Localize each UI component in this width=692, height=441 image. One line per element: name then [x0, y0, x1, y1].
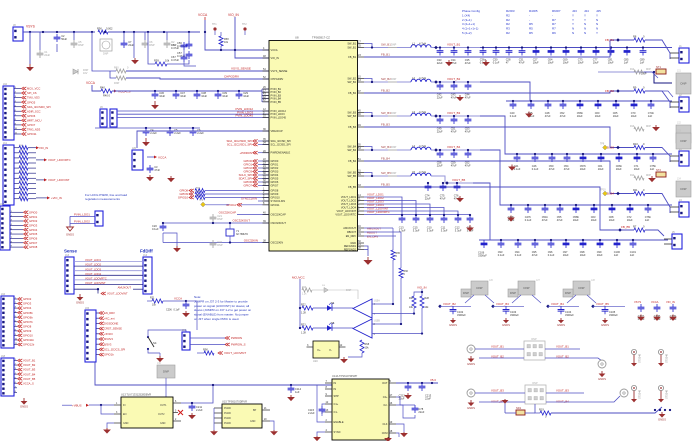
- net label VOUT_B3 jB L: [491, 388, 504, 392]
- wire C7 gnd drop: [133, 32, 135, 58]
- svg-text:10uF: 10uF: [609, 218, 615, 222]
- wire J15 B/3V3: [96, 343, 99, 345]
- svg-text:DNP: DNP: [163, 370, 169, 374]
- wire J15 +5V3/3: [96, 333, 99, 335]
- junction SW_B2: [371, 81, 373, 83]
- junction SW_B1: [371, 46, 373, 48]
- ground C212: [404, 393, 412, 399]
- svg-text:47uF: 47uF: [451, 96, 457, 100]
- wire pin VOUT_B1: [14, 360, 17, 362]
- connector J15gp: [1, 293, 14, 348]
- no-connect X OUT2: [178, 410, 183, 415]
- net label VOUT_B5: [18, 377, 36, 381]
- net label GPIO10: [18, 334, 34, 338]
- capacitor C105: [602, 306, 619, 317]
- wire SW_B2: [364, 81, 388, 83]
- svg-text:DNP: DNP: [391, 172, 397, 175]
- junction dots LDO caps: [145, 127, 194, 129]
- net label SDA_I2C2/SD0_SPI: [227, 139, 258, 143]
- junction dots gnd right: [654, 409, 671, 411]
- net label sense VOUT_LDO2: [85, 263, 101, 267]
- power label VSYS dec: [634, 300, 641, 304]
- svg-text:J25: J25: [596, 9, 601, 13]
- wire VOUT_B3 out: [431, 115, 480, 117]
- wire SDAT_SPI: [258, 178, 269, 180]
- svg-text:V+: V+: [317, 348, 321, 352]
- net label FB_B2 pin: [381, 88, 390, 92]
- svg-text:DNP: DNP: [681, 139, 687, 143]
- power label VCCA pwron: [174, 296, 182, 300]
- svg-text:VCCA: VCCA: [86, 81, 96, 85]
- svg-text:DNP: DNP: [463, 291, 469, 295]
- svg-text:Y: Y: [596, 31, 598, 35]
- svg-text:47uF: 47uF: [465, 130, 471, 134]
- wire J2 stubs: [670, 102, 679, 107]
- svg-text:0.1uF: 0.1uF: [493, 61, 500, 65]
- wire to J22: [662, 91, 673, 97]
- ground C105: [601, 318, 609, 327]
- capacitor C212: [399, 383, 412, 400]
- svg-text:FB_B5: FB_B5: [381, 182, 390, 186]
- net label VOUT_B2 jA L: [491, 354, 504, 358]
- svg-text:J23: J23: [572, 9, 577, 13]
- svg-text:U10B: U10B: [374, 321, 380, 323]
- svg-text:0.47uF: 0.47uF: [171, 46, 179, 50]
- svg-text:R2: R2: [506, 22, 510, 26]
- svg-text:J17: J17: [182, 329, 187, 332]
- wire CHPGDRV: [126, 78, 269, 79]
- svg-text:SCL_I2C2/SD1_SPI: SCL_I2C2/SD1_SPI: [227, 143, 252, 147]
- svg-text:U8: U8: [295, 36, 299, 40]
- svg-text:GPIO7b: GPIO7b: [23, 320, 33, 324]
- capacitor C35: [465, 48, 472, 66]
- net label VOUT_LDOVINT pwron: [218, 351, 246, 355]
- svg-text:VBACKUP: VBACKUP: [271, 129, 283, 133]
- junction NT1: [653, 71, 655, 73]
- net label FB_B5 pin: [381, 182, 390, 186]
- svg-text:U13 TLV713312528DBVR: U13 TLV713312528DBVR: [121, 393, 151, 397]
- svg-text:3300uF: 3300uF: [478, 254, 487, 258]
- wire J11 pin 5: [14, 172, 19, 174]
- connector J23 DNP: [676, 133, 691, 149]
- wire PVIN bus vertical: [261, 89, 263, 102]
- capacitor C77: [593, 48, 600, 65]
- svg-text:J11: J11: [3, 142, 7, 145]
- wire pin GPIO7b: [14, 321, 17, 323]
- capacitor C43b: [508, 205, 515, 222]
- svg-text:1uF: 1uF: [645, 218, 650, 222]
- resistor R23: [301, 324, 313, 335]
- transistor Q1 DNP: [100, 39, 112, 56]
- svg-text:J27: J27: [536, 279, 541, 282]
- wire U13 OUT1: [181, 385, 213, 403]
- net label J15 DIGSDONE: [99, 322, 119, 326]
- svg-text:R5: R5: [529, 22, 533, 26]
- capacitor C36a: [480, 48, 487, 65]
- junction dots VOUT_B2 caps: [439, 81, 469, 83]
- svg-text:VSYS: VSYS: [634, 300, 641, 304]
- wire SDA_I2C2/SD0_SPI: [258, 140, 269, 142]
- wire sense B1: [598, 71, 654, 73]
- svg-text:DNP: DNP: [477, 286, 483, 290]
- svg-text:VOUT_B2: VOUT_B2: [443, 302, 456, 306]
- net label VSYS: [26, 25, 36, 29]
- wire J11 out 10: [28, 198, 36, 200]
- svg-text:1uF: 1uF: [624, 61, 629, 65]
- svg-text:22uF: 22uF: [128, 43, 134, 47]
- resistor R31 J11: [19, 150, 28, 155]
- svg-text:J10: J10: [3, 83, 8, 86]
- wire RBOOT: [364, 231, 401, 233]
- svg-text:TP9: TP9: [600, 144, 605, 146]
- wire GPIO11: [241, 204, 269, 206]
- svg-text:10uF: 10uF: [634, 167, 640, 171]
- wire PVIN pin stub: [262, 88, 269, 90]
- wire sense VOUT_LDO2: [74, 265, 143, 267]
- net label GPIO8: [24, 245, 38, 249]
- wire pin GPIO3: [10, 224, 23, 226]
- net label SW_B4: [381, 145, 391, 149]
- resistor sense DNP B2: [388, 78, 397, 82]
- net label GPIO5b: [18, 311, 34, 315]
- svg-text:10uF: 10uF: [631, 114, 637, 118]
- svg-text:J23: J23: [677, 130, 682, 133]
- ground J19 GNDS: [66, 227, 74, 236]
- capacitor C6 DNP: [142, 40, 155, 48]
- net label GPIO7: [24, 241, 38, 245]
- svg-text:R6: R6: [552, 31, 556, 35]
- svg-text:TP6: TP6: [199, 200, 204, 202]
- svg-text:+5V3/3: +5V3/3: [104, 332, 113, 336]
- wire U14A OUT: [396, 382, 438, 384]
- net label J15 +KC_ent: [99, 316, 115, 320]
- svg-text:GPIO1: GPIO1: [29, 215, 38, 219]
- wire VOUT_B4 bank rail: [501, 204, 672, 206]
- net label SW_B2: [381, 77, 391, 81]
- svg-text:U10: U10: [313, 360, 318, 363]
- ground U14A: [384, 437, 392, 441]
- net label OSC32KIN: [244, 238, 258, 242]
- wire U10A in-: [372, 313, 414, 315]
- svg-text:0.1uF: 0.1uF: [548, 253, 555, 257]
- nettie NT1: [656, 65, 666, 74]
- net label GPIO4: [18, 306, 32, 310]
- svg-text:+KC_ent: +KC_ent: [104, 316, 115, 320]
- capacitor C74: [425, 183, 432, 201]
- net label PVIN_LDO45: [235, 114, 253, 118]
- ground PVIN caps: [151, 101, 159, 109]
- resistor R32 J11: [19, 155, 28, 160]
- wire SW_B2 merge: [364, 79, 372, 83]
- svg-text:GPIO11: GPIO11: [27, 132, 37, 136]
- svg-text:Y: Y: [584, 18, 586, 22]
- svg-text:10uF: 10uF: [591, 218, 597, 222]
- capacitor C109: [670, 304, 677, 321]
- wire REFGND: [364, 246, 368, 256]
- svg-text:10uF: 10uF: [597, 253, 603, 257]
- wire GPIO3: [258, 171, 269, 173]
- svg-text:3.3uF: 3.3uF: [455, 229, 462, 233]
- capacitor C213: [419, 383, 432, 400]
- resistor R10: [633, 142, 645, 150]
- wire OSC32KOUT: [163, 222, 269, 224]
- wire pin TMU_VD3: [14, 97, 21, 99]
- svg-text:3.3uF: 3.3uF: [413, 229, 420, 233]
- capacitor C99: [597, 240, 604, 257]
- wire FB_B3 to connector: [645, 148, 670, 163]
- wire VOUT_B2 bulk: [440, 305, 471, 307]
- capacitor C29: [236, 91, 250, 99]
- wire PVIN_LDO3: [117, 113, 269, 115]
- net label sense VOUT_LDO4: [85, 272, 101, 276]
- wire FB_B5: [364, 187, 634, 230]
- wire VOUT_LDO4: [364, 208, 444, 216]
- svg-text:1uF: 1uF: [630, 253, 635, 257]
- capacitor C64: [548, 48, 555, 65]
- wire GPIO9: [205, 193, 269, 195]
- wire pin 7: [14, 391, 17, 393]
- net label GPIO10: [178, 196, 194, 200]
- wire jB row2 R: [546, 396, 620, 402]
- svg-text:FB_B3: FB_B3: [348, 125, 356, 129]
- ground GND1: [26, 64, 34, 71]
- ground C114: [287, 395, 295, 401]
- wire J15 MV3V3: [96, 338, 99, 340]
- svg-text:C206: C206: [166, 309, 172, 312]
- svg-text:SW_B1: SW_B1: [347, 42, 356, 46]
- resistor R90: [203, 347, 214, 355]
- wire PVIN_LDO45: [117, 116, 269, 118]
- wire OSC32KCAP: [237, 214, 269, 216]
- svg-text:R14: R14: [630, 175, 635, 177]
- wire SW_B5: [364, 175, 388, 177]
- wire pin SPI_CS: [14, 92, 21, 94]
- svg-text:DNP: DNP: [681, 187, 687, 191]
- svg-text:GPIO3: GPIO3: [271, 170, 279, 174]
- svg-text:OUT: OUT: [382, 381, 388, 385]
- svg-text:VCCA: VCCA: [271, 48, 278, 52]
- ground CLK: [400, 432, 408, 437]
- svg-text:R11: R11: [633, 188, 638, 192]
- wire C1+ cap: [322, 404, 325, 406]
- wire J11 out 3: [28, 162, 36, 164]
- wire VOUT_B5 bank rail: [479, 239, 668, 241]
- net label GPIO12b: [18, 343, 35, 347]
- net label GPIO9: [179, 192, 193, 196]
- IC U8 body TPS65917: [269, 36, 358, 252]
- wire SYNCCLKIN: [258, 200, 269, 202]
- svg-text:VOUT_B3: VOUT_B3: [556, 388, 569, 392]
- connector J12: [0, 203, 10, 250]
- svg-text:VOUT_B3: VOUT_B3: [491, 388, 504, 392]
- wire C67 out: [184, 62, 196, 66]
- wire VOUT_B4 bulk: [548, 305, 579, 307]
- svg-text:V5.0: V5.0: [430, 378, 436, 382]
- svg-text:DNP: DNP: [78, 43, 84, 47]
- capacitor C57: [177, 51, 192, 59]
- svg-text:SW_B4: SW_B4: [347, 148, 356, 152]
- junction dots bank B2: [512, 100, 652, 102]
- net label SCLK_SPI: [239, 173, 258, 177]
- wire jB to R19: [535, 404, 540, 413]
- wire DNP led row 2: [329, 290, 358, 299]
- svg-text:SW_B5: SW_B5: [381, 171, 391, 175]
- svg-text:VOUT_LDO4: VOUT_LDO4: [85, 272, 101, 276]
- ground B1 b: [482, 60, 490, 66]
- net label GPIO6: [22, 114, 36, 118]
- svg-text:22uF: 22uF: [418, 410, 424, 414]
- net label SDAT_SPI: [239, 177, 258, 181]
- capacitor C7: [121, 40, 135, 48]
- svg-text:J18: J18: [1, 355, 6, 358]
- svg-text:47uF: 47uF: [542, 218, 548, 222]
- svg-text:CHPGDRV: CHPGDRV: [224, 75, 239, 79]
- capacitor C27: [533, 48, 540, 65]
- wire J11 pin 0: [14, 147, 19, 149]
- capacitor C11: [441, 215, 448, 233]
- junction dots VOUT_B5 caps: [427, 182, 458, 184]
- svg-text:GPIO6: GPIO6: [27, 114, 36, 118]
- ground REFGND: [363, 257, 372, 265]
- svg-text:2.2uF: 2.2uF: [308, 411, 315, 415]
- net label VOUT_B2: [434, 77, 460, 84]
- junction C211: [191, 402, 193, 404]
- svg-text:Note:: Note:: [194, 295, 201, 299]
- wire U13 gnd: [107, 423, 114, 428]
- capacitor C45: [528, 101, 535, 118]
- capacitor C78: [412, 405, 425, 414]
- svg-text:J16: J16: [1, 293, 6, 296]
- net label AMUXOUT: [367, 226, 381, 230]
- ground B2 near: [456, 95, 464, 101]
- svg-text:VSYS_SENSE: VSYS_SENSE: [231, 67, 251, 71]
- transistor J28 DNP: [573, 281, 590, 295]
- wire FB_B4: [364, 161, 634, 194]
- svg-text:PWRDNENABLE: PWRDNENABLE: [271, 151, 291, 155]
- svg-text:GPIO7: GPIO7: [271, 184, 279, 188]
- wire SW_B1: [364, 47, 388, 49]
- capacitor C40: [510, 101, 517, 118]
- svg-text:FB_B4: FB_B4: [348, 159, 356, 163]
- wire J28 left leg: [567, 295, 576, 303]
- capacitor C58: [437, 150, 444, 168]
- wire bat to VCCA: [147, 156, 154, 158]
- capacitor C93: [498, 240, 505, 257]
- power arrow VCCA: [204, 17, 206, 20]
- svg-text:FB_B2: FB_B2: [605, 89, 614, 93]
- svg-text:TP2: TP2: [242, 23, 247, 26]
- ground J18 GNDS: [20, 398, 28, 409]
- svg-text:GPIO5: GPIO5: [29, 232, 38, 236]
- svg-text:R23: R23: [301, 324, 306, 327]
- svg-text:VIO_IN: VIO_IN: [228, 13, 239, 17]
- wire pin GPIO5: [10, 233, 23, 235]
- junction dots rail: [212, 384, 292, 386]
- net label TMU_VD3: [22, 96, 41, 100]
- capacitor C75: [440, 183, 447, 201]
- resistor R20 DNP: [302, 287, 312, 296]
- resistor R28: [420, 296, 430, 309]
- junction sense: [97, 288, 99, 290]
- wire pin GPIO8: [10, 246, 23, 248]
- power label VCCA 2: [86, 81, 96, 85]
- net label pin numbers: [15, 298, 18, 346]
- svg-text:C2+: C2+: [383, 395, 388, 399]
- resistor R35 J11: [19, 171, 28, 176]
- net label VOUT_LDOVRTC: [367, 210, 390, 214]
- resistor R52: [195, 195, 205, 200]
- capacitor C108: [654, 304, 661, 321]
- svg-text:22uF: 22uF: [437, 61, 443, 65]
- wire J11 pin 3: [14, 162, 19, 164]
- power label VIO_IN cmp: [417, 286, 426, 290]
- capacitor C89: [640, 48, 647, 65]
- capacitor C96: [548, 240, 555, 257]
- wire PVIN pin stub: [262, 91, 269, 93]
- wire S4 out: [148, 349, 160, 353]
- wire VSYS rail left: [23, 31, 95, 33]
- capacitor C50: [549, 154, 556, 171]
- ground C206: [182, 311, 190, 317]
- resistor R22: [301, 304, 313, 315]
- svg-text:1uF: 1uF: [295, 390, 300, 394]
- wire U10B in-: [372, 333, 422, 335]
- svg-text:VIO_IN: VIO_IN: [39, 146, 48, 150]
- resistor R58: [219, 36, 229, 46]
- svg-text:L5: L5: [412, 170, 415, 174]
- capacitor C41: [514, 154, 521, 171]
- svg-text:VOUT_LDO1: VOUT_LDO1: [85, 258, 101, 262]
- svg-text:R4/R5: R4/R5: [529, 9, 538, 13]
- wire CCM: [396, 433, 399, 437]
- capacitor C21 DNP: [210, 214, 223, 222]
- test point TP6: [199, 200, 206, 207]
- net label VOUT_LDOVINT sense2: [101, 292, 128, 296]
- svg-text:GPIO5b: GPIO5b: [23, 311, 33, 315]
- resistor gate DNP at 461: [461, 289, 471, 297]
- net label VIO_IN J11: [36, 146, 48, 150]
- svg-text:4.7uH: 4.7uH: [419, 41, 426, 45]
- capacitor C69: [563, 48, 570, 65]
- resistor sense DNP B5: [388, 172, 397, 176]
- svg-text:GPIO6: GPIO6: [29, 237, 38, 241]
- svg-text:R40: R40: [100, 85, 105, 89]
- connector J5: [672, 231, 682, 249]
- wire VCCA to pin 4: [205, 20, 269, 50]
- net label VOUT_B3 bulk: [491, 302, 509, 308]
- wire C66-C67: [183, 50, 185, 54]
- wire FB_B5 to J5: [645, 230, 664, 236]
- svg-text:SDA_I2C/SD_SPI: SDA_I2C/SD_SPI: [271, 139, 292, 143]
- capacitor C76: [454, 183, 461, 201]
- net label pin numbers: [15, 359, 17, 393]
- wire S4 top: [148, 330, 186, 337]
- net label VOUT_LDO3: [367, 200, 384, 204]
- svg-text:MCUVCC: MCUVCC: [292, 275, 305, 279]
- wire TP6 GPIO: [206, 204, 230, 206]
- svg-text:4.7uH: 4.7uH: [419, 76, 426, 80]
- svg-text:PVIN_LDO45: PVIN_LDO45: [271, 115, 287, 119]
- svg-text:2.2uF: 2.2uF: [174, 131, 181, 135]
- net label VOUT_B4 bulk: [546, 302, 564, 308]
- svg-text:GPIO7: GPIO7: [243, 184, 252, 188]
- net label VOUT_B4: [18, 372, 36, 376]
- svg-text:0.1uF: 0.1uF: [515, 253, 522, 257]
- capacitor C66b: [616, 154, 623, 171]
- wire ENABLE up: [317, 385, 325, 422]
- wire PVIN pin stub: [262, 101, 269, 103]
- ground OSC: [173, 246, 181, 252]
